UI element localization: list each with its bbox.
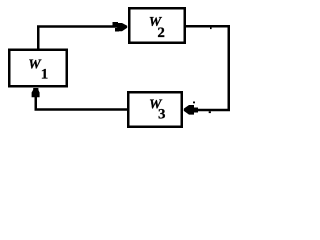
svg-text:3: 3 [158, 106, 166, 122]
wire W3 left to below W1, up into W1 bottom [36, 97, 128, 110]
wire W1 top to W2 left [38, 27, 118, 50]
svg-text:1: 1 [41, 66, 49, 82]
arrowhead into W1 [32, 88, 40, 97]
block W1 [9, 50, 67, 87]
svg-text:2: 2 [157, 25, 165, 41]
arrowhead into W2 [117, 23, 127, 31]
speck artifacts [210, 28, 212, 30]
wire W2 right, down, to W3 right [185, 26, 229, 110]
arrowhead into W3 [184, 105, 194, 115]
block W2 [129, 8, 185, 43]
block W3 [128, 92, 182, 127]
